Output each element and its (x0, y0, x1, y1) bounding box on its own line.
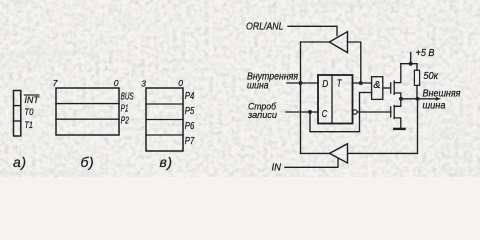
tri-state input buffer B2 (330, 144, 348, 163)
wire inverted Q to lower transistor gate (357, 111, 391, 113)
svg-text:ме жну: ме жну (2, 0, 29, 8)
inverted output bubble (353, 110, 357, 114)
svg-text:ORL/ANL: ORL/ANL (246, 22, 284, 33)
svg-text:P5: P5 (185, 106, 195, 117)
wire external pin node (401, 98, 438, 100)
svg-text:P1: P1 (121, 104, 129, 115)
svg-text:IN: IN (272, 163, 282, 174)
svg-text:0: 0 (114, 78, 119, 88)
svg-text:ной степени: ной степени (2, 61, 51, 70)
svg-text:нии выборки данных нии: нии выборки данных нии (2, 49, 95, 58)
svg-text:л: л (224, 53, 230, 62)
INT overline (24, 94, 38, 96)
cell divider (14, 120, 21, 122)
svg-text:&: & (373, 79, 380, 91)
wire buffer B2 output to internal bus (301, 152, 330, 154)
wire +5V node rail (401, 63, 417, 65)
svg-text:ли: ли (444, 14, 455, 23)
svg-text:б): б) (81, 154, 95, 170)
faint scan bleed-through background (2, 0, 478, 177)
cell divider (146, 119, 183, 121)
svg-text:ных: ных (443, 26, 458, 35)
node pin / transistors junction (399, 97, 403, 101)
svg-text:регистр: регистр (441, 141, 475, 150)
svg-text:P4: P4 (185, 91, 195, 102)
transistor Q1 upper MOSFET (391, 64, 401, 99)
svg-text:P7: P7 (185, 136, 195, 147)
register box a) PSW flags (14, 91, 21, 137)
wire Q output to AND gate (353, 82, 372, 84)
svg-text:адресует: адресует (441, 165, 478, 174)
cell divider (14, 105, 21, 107)
+5V supply lead (410, 53, 412, 64)
wire buffer B1 output to internal bus (301, 41, 330, 43)
node pin / external bus junction (416, 97, 420, 101)
svg-text:BUS: BUS (121, 91, 134, 102)
svg-text:INT: INT (24, 95, 40, 106)
svg-text:ячеек и: ячеек и (440, 153, 469, 162)
node +5V junction (409, 62, 413, 66)
wire resistor to pin node (416, 85, 418, 98)
wire node to resistor (416, 64, 418, 71)
svg-text:данных: данных (441, 117, 470, 126)
wire IN command to buffer B2 enable (285, 159, 338, 168)
wire external bus to IN buffer input (348, 99, 418, 154)
svg-text:7: 7 (53, 78, 58, 88)
svg-text:3: 3 (141, 79, 146, 89)
wire buffer B1 input from Q node (348, 42, 361, 83)
wire strobe branch under flip-flop to AND gate input (310, 93, 372, 132)
svg-text:шина: шина (423, 101, 446, 112)
svg-text:е чем: е чем (443, 39, 464, 48)
svg-text:T1: T1 (24, 120, 33, 131)
wire AND output to upper transistor gate (383, 87, 390, 89)
D flip-flop U1 box (318, 75, 353, 124)
internal bus vertical wire (300, 42, 302, 153)
transistor Q2 lower MOSFET (391, 99, 401, 128)
cell divider (146, 134, 183, 136)
svg-text:50к: 50к (423, 71, 439, 82)
resistor R1 50k (414, 70, 419, 85)
register box b) 8-bit ports (56, 88, 119, 135)
svg-text:Внешняя: Внешняя (423, 88, 462, 99)
ground (394, 128, 404, 130)
svg-text:вывода: вывода (440, 129, 468, 138)
svg-text:P2: P2 (121, 116, 130, 127)
svg-text:T0: T0 (24, 107, 34, 118)
svg-text:D: D (322, 78, 328, 90)
register box v) 4-bit ports (146, 88, 183, 151)
tri-state read buffer B1 (329, 32, 347, 53)
svg-text:записи: записи (247, 110, 278, 121)
svg-text:шина: шина (247, 81, 269, 92)
cell divider (56, 103, 119, 105)
svg-text:ие повторяющиеся раза МК: ие повторяющиеся раза МК (300, 0, 408, 9)
node Q / buffer input junction (359, 81, 363, 85)
svg-text:в): в) (160, 154, 173, 170)
wire write strobe to C input (286, 111, 318, 113)
node internal bus / D input junction (299, 81, 303, 85)
node strobe branch junction (308, 110, 312, 114)
D flip-flop divider (331, 75, 333, 124)
svg-text:C: C (322, 108, 328, 120)
cell divider (56, 118, 119, 120)
cell divider (146, 103, 183, 105)
svg-text:0: 0 (178, 78, 183, 88)
svg-text:+5 В: +5 В (416, 48, 435, 59)
wire internal bus to D input (287, 82, 318, 84)
svg-text:P6: P6 (185, 121, 195, 132)
wire ORL/ANL to read buffer enable (288, 26, 337, 35)
svg-text:й: й (196, 113, 201, 122)
svg-text:а): а) (13, 154, 27, 170)
arrowhead external bus (436, 97, 441, 101)
AND gate U2 box (372, 77, 383, 100)
